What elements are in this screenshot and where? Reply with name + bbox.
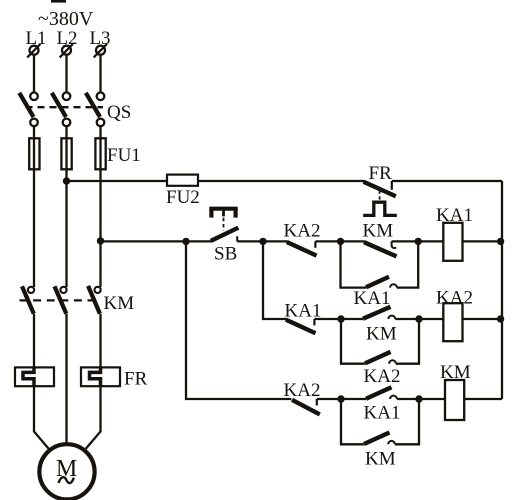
terminal L2 xyxy=(60,44,73,57)
wire right rail vertical xyxy=(501,181,503,399)
wire coil KA2 to right rail xyxy=(463,318,503,320)
wire KA1 to KM contact rung2 xyxy=(314,318,363,320)
fuse FU1 pole2 xyxy=(61,138,71,169)
wire L2 to QS xyxy=(65,56,67,93)
motor M circle xyxy=(39,444,94,499)
svg-text:KA2: KA2 xyxy=(436,288,473,309)
wire FR to right rail xyxy=(392,180,502,182)
wire KA1 to coil KM xyxy=(397,398,445,400)
svg-text:KM: KM xyxy=(365,448,396,469)
wire P1 branch right xyxy=(397,241,418,287)
wire L2 down to KM xyxy=(65,181,67,287)
wire L3 down to KM xyxy=(99,181,101,287)
wire coil KM to right rail xyxy=(464,398,502,400)
coil KA1 xyxy=(443,223,462,261)
svg-text:FR: FR xyxy=(124,369,148,390)
fuse FU1 pole3 xyxy=(95,138,105,169)
QS linkage dashed xyxy=(26,106,104,108)
wire KM pole1 down xyxy=(33,314,35,368)
pushbutton SB actuator xyxy=(209,209,237,218)
contact KA1 rung3 terminal hook xyxy=(390,396,397,399)
wire SB to KA2 contact xyxy=(237,240,287,242)
svg-text:KM: KM xyxy=(104,293,135,314)
wire rung3 left vertical xyxy=(186,241,291,399)
wire control line B xyxy=(101,240,212,242)
FR actuator dashed link xyxy=(379,191,381,201)
contact KA1 rung2 right tick xyxy=(313,319,315,325)
contact KA2 rung3 right tick xyxy=(316,399,318,405)
svg-text:KA2: KA2 xyxy=(364,366,401,387)
pushbutton SB dashed stem xyxy=(223,218,225,231)
contactor KM main pole3 xyxy=(88,286,101,314)
cropped mark top edge xyxy=(51,0,66,3)
wire P3 branch right xyxy=(395,399,419,444)
contact KM rung2 blade xyxy=(363,307,391,319)
wire QS to FU1 pole3 xyxy=(99,126,101,181)
node right rail rung2 xyxy=(497,315,504,322)
contact KA2 rung1 blade xyxy=(287,242,317,256)
svg-text:~380V: ~380V xyxy=(38,8,94,30)
wire L3 to QS xyxy=(99,56,101,93)
fuse FU1 pole1 xyxy=(29,138,39,169)
node P2 tap xyxy=(337,315,344,322)
contact KM parallel hook xyxy=(388,441,395,444)
heater FR detour phase1 xyxy=(23,368,34,386)
wire heater3 to motor xyxy=(86,386,101,449)
terminal L3 xyxy=(94,44,107,57)
svg-text:KA1: KA1 xyxy=(354,288,391,309)
svg-text:FU2: FU2 xyxy=(166,187,200,208)
contact KM rung2 terminal hook xyxy=(388,316,395,319)
svg-text:KM: KM xyxy=(366,324,397,345)
svg-text:KA2: KA2 xyxy=(284,221,321,242)
motor tilde xyxy=(59,477,74,483)
wire KA2 to KA1 contact rung3 xyxy=(317,398,366,400)
coil KA2 xyxy=(443,303,462,341)
KM main linkage dashed xyxy=(20,299,101,301)
switch QS pole 1 xyxy=(19,92,38,126)
contact KA1 rung3 blade xyxy=(366,387,392,399)
svg-text:KM: KM xyxy=(363,221,394,242)
wire rung2 left vertical xyxy=(263,241,286,319)
wire KM to coil KA2 xyxy=(395,318,443,320)
wire L1 down to KM xyxy=(33,181,35,287)
wire P2 branch right xyxy=(396,319,419,364)
wire heater1 to motor xyxy=(34,386,49,449)
pushbutton SB blade xyxy=(211,228,239,241)
pushbutton SB right tick xyxy=(236,236,238,241)
contact KA2 rung3 blade xyxy=(292,400,320,415)
fuse FU2 xyxy=(167,175,198,186)
wire KA2 to KM contact rung1 xyxy=(315,240,364,242)
heater FR element box phase3 xyxy=(81,367,120,386)
contactor KM main pole1 xyxy=(22,286,34,313)
wire P1 branch left xyxy=(341,241,367,287)
node right rail rung1 xyxy=(497,238,504,245)
heater FR detour phase3 xyxy=(90,368,101,386)
wire KM pole3 down xyxy=(99,314,101,368)
contactor KM main pole2 xyxy=(55,286,67,313)
svg-text:FU1: FU1 xyxy=(107,145,141,166)
contact KA1 parallel hook xyxy=(390,284,397,287)
wire KM to coil KA1 xyxy=(392,240,444,242)
node control tap on L3 xyxy=(97,237,104,244)
svg-text:KA2: KA2 xyxy=(284,380,321,401)
wire QS to FU1 pole2 xyxy=(65,126,67,181)
wire P2 branch left xyxy=(341,319,365,364)
coil KM xyxy=(445,380,464,420)
node control tap on L2 xyxy=(63,177,70,184)
node P1 tap xyxy=(337,238,344,245)
node P1 rejoin xyxy=(415,238,422,245)
heater FR element box phase1 xyxy=(15,367,54,386)
contact FR right terminal tick xyxy=(391,181,393,190)
switch QS pole 2 xyxy=(52,92,71,126)
node P2 rejoin xyxy=(415,315,422,322)
contact KA2 parallel hook xyxy=(389,360,396,363)
contact FR normally-closed blade xyxy=(364,182,396,196)
contact KA2 rung1 right tick xyxy=(314,241,316,247)
node P3 tap xyxy=(337,395,344,402)
switch QS pole 3 xyxy=(86,92,104,126)
contact KM rung1 blade xyxy=(364,242,397,256)
node rung2 tap xyxy=(259,238,266,245)
wire QS to FU1 pole1 xyxy=(33,126,35,181)
svg-text:SB: SB xyxy=(214,244,237,265)
wire KM pole2 down to motor xyxy=(65,314,67,445)
contact KA1 rung2 blade xyxy=(286,320,316,334)
wire control line A xyxy=(67,180,168,182)
node P3 rejoin xyxy=(415,395,422,402)
contact KM parallel blade xyxy=(364,433,390,445)
terminal L1 xyxy=(27,44,40,57)
svg-text:QS: QS xyxy=(107,102,131,123)
svg-text:FR: FR xyxy=(369,163,393,184)
node rung3 tap xyxy=(182,238,189,245)
FR thermal element symbol xyxy=(363,202,397,215)
wire P3 branch left xyxy=(341,399,364,444)
wire coil KA1 to right rail xyxy=(463,240,503,242)
svg-text:KA1: KA1 xyxy=(364,403,401,424)
contact KM rung1 terminal hook xyxy=(392,241,397,248)
contact KA2 parallel blade xyxy=(365,352,391,364)
contact KA1 parallel blade xyxy=(366,277,389,288)
wire FU2 to FR xyxy=(198,180,365,182)
wire L1 to QS xyxy=(33,56,35,93)
